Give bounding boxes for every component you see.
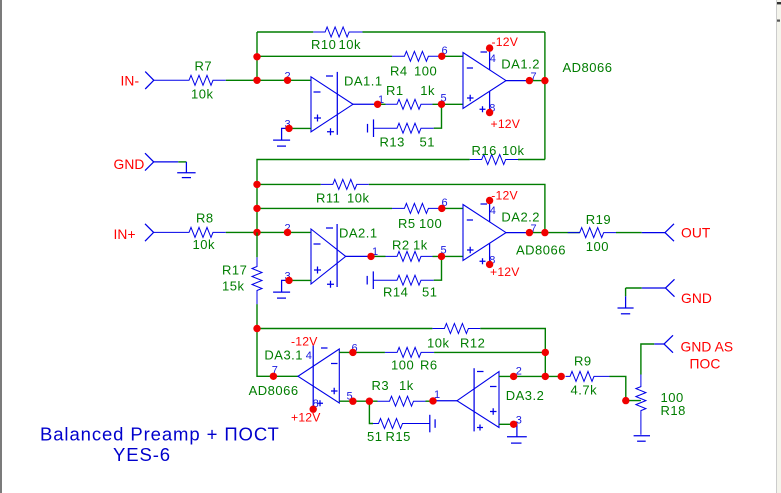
svg-text:51: 51 — [422, 285, 437, 300]
label R9 4.7k — [571, 354, 598, 398]
junction R5 tap on input net — [253, 205, 260, 212]
junction R6 to R12 net — [542, 349, 549, 356]
junction DA3.1 pin 6 — [349, 349, 356, 356]
ground at R18 — [634, 436, 650, 442]
resistor R12 — [432, 324, 480, 334]
svg-text:10k: 10k — [347, 191, 369, 206]
resistor R10 — [313, 27, 362, 37]
svg-text:IN+: IN+ — [114, 227, 136, 242]
wire R8 to input node — [226, 231, 311, 233]
wire R7 to input node — [226, 79, 257, 81]
svg-text:10k: 10k — [193, 237, 215, 252]
svg-text:R7: R7 — [195, 59, 213, 74]
wire output dot to R2 — [371, 255, 386, 257]
svg-text:DA1.2: DA1.2 — [501, 56, 540, 71]
junction DA3.1 pin 7 — [270, 373, 277, 380]
label R14 51 — [383, 285, 437, 300]
resistor R3 — [378, 396, 426, 406]
wire output to OUT row — [529, 232, 579, 234]
junction DA3.2 pin 1 — [429, 397, 436, 404]
label R4 100 — [390, 64, 437, 79]
resistor R13 with ground tap — [368, 119, 434, 137]
svg-text:R15: R15 — [386, 429, 411, 444]
wire R2 to pin5 node — [433, 255, 464, 257]
junction DA2.2 pin 8 power — [486, 261, 493, 268]
wire pin5 node down to R14 — [434, 256, 442, 280]
junction DA1.2 pin 8 power — [486, 109, 493, 116]
junction DA3.1 pin 8 power — [310, 406, 317, 413]
junction DA1.2 pin 5 — [438, 101, 445, 108]
svg-text:10k: 10k — [339, 37, 361, 52]
label R19 100 — [586, 212, 611, 254]
wire DA3.2 pin3 to ground — [499, 424, 517, 436]
node GND input connector — [145, 153, 154, 170]
junction R9 left node — [558, 373, 565, 380]
node OUT connector — [665, 224, 674, 241]
wire DA1.2 output — [506, 80, 529, 82]
wire pin3 DA2.1 to ground — [282, 280, 311, 292]
window left border — [0, 0, 2, 493]
wire R6 to right vertical — [434, 351, 545, 353]
resistor R8 — [154, 227, 226, 237]
svg-text:-12V: -12V — [291, 335, 318, 349]
junction DA2.2 pin 5 — [438, 253, 445, 260]
wire R4 row — [257, 55, 463, 57]
junction DA3.1 pin 5 — [349, 398, 356, 405]
label R17 15k — [222, 262, 247, 293]
junction DA1.2 pin 4 power — [486, 44, 493, 51]
junction pin2 net at right vertical — [542, 373, 549, 380]
junction input node at R7 — [253, 77, 260, 84]
wire DA2.2 output — [506, 232, 529, 234]
resistor R16 — [470, 155, 518, 165]
resistor R19 — [568, 228, 616, 238]
label 100 R6 — [391, 358, 438, 373]
label 51 R15 — [367, 429, 411, 444]
wire stage1 bottom (R16 row) — [257, 160, 545, 233]
svg-text:R12: R12 — [460, 336, 485, 351]
svg-text:4: 4 — [490, 205, 496, 217]
wire output to right vertical — [529, 80, 545, 82]
svg-text:R13: R13 — [380, 135, 405, 150]
wire pin5 branch down to R15 — [369, 401, 373, 423]
resistor R4 — [392, 51, 440, 61]
wire DA3.1 pin6 row — [339, 351, 385, 353]
junction DA1.2 pin 7 — [526, 77, 533, 84]
junction DA2.2 pin 4 power — [486, 197, 493, 204]
svg-text:DA2.2: DA2.2 — [501, 209, 540, 224]
wire DA3.2 pin2 row — [499, 375, 561, 377]
svg-text:51: 51 — [420, 135, 435, 150]
resistor R11 — [321, 179, 369, 189]
label R2 1k — [392, 238, 428, 253]
svg-text:DA3.1: DA3.1 — [264, 347, 303, 362]
node IN- connector — [145, 72, 154, 89]
wire DA3.2 output — [433, 400, 457, 402]
svg-text:R2: R2 — [392, 238, 410, 253]
resistor R14 with ground tap — [367, 271, 434, 289]
junction DA1.2 pin 6 — [438, 53, 445, 60]
ground at DA3.2 pin3 — [507, 437, 527, 443]
svg-text:R14: R14 — [383, 285, 408, 300]
junction input node at R8 — [253, 229, 260, 236]
ground at GND right — [618, 308, 634, 314]
junction DA3.2 pin 2 — [510, 373, 517, 380]
wire R5 row — [257, 207, 463, 209]
wire DA3.1 pin5 row — [339, 400, 377, 402]
wire pin5 node down to R13 — [434, 104, 442, 128]
svg-text:R16: R16 — [472, 143, 497, 158]
svg-text:DA1.1: DA1.1 — [344, 74, 383, 89]
wire R12 row (stage3 top) — [257, 329, 545, 377]
wire GND right to ground — [626, 288, 666, 308]
svg-text:R18: R18 — [661, 403, 686, 418]
op-amp DA1.2 — [463, 48, 506, 112]
wire R1 to pin5 node — [433, 103, 464, 105]
label R16 10k — [472, 143, 525, 158]
junction DA3.2 pin 3 — [510, 421, 517, 428]
wire R9 to R18 node — [610, 376, 641, 400]
wire GND connector to ground — [154, 162, 187, 173]
wire GND AS to R18 — [641, 344, 664, 375]
op-amp DA3.1 (mirrored) — [298, 346, 339, 410]
svg-text:R9: R9 — [574, 354, 592, 369]
window right scrollbar edge — [777, 0, 781, 493]
svg-text:GND: GND — [681, 291, 712, 306]
resistor R6 — [385, 347, 434, 357]
wire R3 to pin1 node — [426, 400, 434, 402]
junction DA2.2 pin 7 — [526, 229, 533, 236]
junction R15 tap — [366, 398, 373, 405]
wire R11 row — [257, 184, 545, 232]
svg-text:100: 100 — [414, 64, 437, 79]
label 10k R12 — [427, 336, 485, 351]
wire R17 column — [256, 232, 258, 328]
svg-text:R6: R6 — [420, 358, 438, 373]
svg-text:R17: R17 — [222, 262, 247, 277]
node GND AS connector — [664, 335, 673, 352]
junction stage1 output net — [541, 77, 548, 84]
svg-text:100: 100 — [586, 239, 609, 254]
svg-text:DA3.2: DA3.2 — [506, 388, 545, 403]
wire DA2.1 output — [346, 255, 371, 257]
node IN+ connector — [145, 224, 154, 241]
svg-text:ПОС: ПОС — [690, 357, 721, 372]
svg-text:R3: R3 — [372, 378, 390, 393]
svg-text:1k: 1k — [399, 378, 414, 393]
op-amp DA2.1 — [311, 224, 346, 288]
junction DA2.1 pin 1 — [367, 253, 374, 260]
resistor R9 — [566, 371, 610, 381]
svg-text:+12V: +12V — [291, 411, 321, 425]
svg-text:R8: R8 — [196, 211, 214, 226]
label R13 51 — [380, 135, 435, 150]
ground at GND input — [177, 173, 195, 178]
label R8 value — [193, 211, 215, 253]
junction R17 to R12 node — [253, 325, 260, 332]
junction DA1.1 pin 2 — [284, 77, 291, 84]
junction DA1.1 pin 1 — [374, 101, 381, 108]
svg-text:YES-6: YES-6 — [113, 444, 171, 465]
svg-text:-12V: -12V — [491, 189, 518, 203]
svg-text:AD8066: AD8066 — [249, 383, 299, 398]
svg-text:IN-: IN- — [121, 73, 140, 88]
op-amp DA1.1 — [311, 72, 353, 135]
svg-text:+12V: +12V — [490, 265, 520, 279]
op-amp DA3.2 (mirrored) — [457, 368, 499, 431]
wire stage1 right vertical — [544, 32, 546, 160]
wire input node to op-amp — [257, 79, 311, 81]
svg-text:AD8066: AD8066 — [563, 60, 613, 75]
resistor R7 — [154, 75, 226, 85]
svg-text:GND AS: GND AS — [681, 340, 734, 355]
label R1 1k — [386, 83, 435, 98]
svg-text:10k: 10k — [427, 336, 449, 351]
svg-text:R1: R1 — [386, 83, 404, 98]
label R10 10k — [311, 37, 361, 52]
svg-text:51: 51 — [367, 429, 382, 444]
svg-text:R11: R11 — [316, 191, 340, 206]
svg-text:1k: 1k — [420, 83, 435, 98]
wire pin3 to ground — [282, 128, 311, 140]
junction DA2.1 pin 3 — [285, 277, 292, 284]
junction OUT net — [541, 229, 548, 236]
wire DA1.1 output — [353, 103, 378, 105]
wire stage1 left vertical — [256, 32, 258, 80]
svg-text:100: 100 — [391, 358, 414, 373]
svg-text:R4: R4 — [390, 64, 408, 79]
op-amp DA2.2 — [463, 201, 506, 265]
resistor R18 — [636, 375, 646, 435]
svg-text:4.7k: 4.7k — [571, 383, 598, 398]
label R3 1k — [372, 378, 414, 393]
svg-text:+12V: +12V — [491, 117, 521, 131]
title text — [40, 423, 280, 465]
resistor R2 — [386, 251, 433, 261]
svg-text:Balanced Preamp + ПОСТ: Balanced Preamp + ПОСТ — [40, 423, 280, 444]
junction R9 to R18 node — [622, 397, 629, 404]
ground at DA1.1 pin3 — [273, 140, 290, 146]
wire stage1 top (feedback) — [257, 31, 545, 33]
ground at DA2.1 pin3 — [273, 292, 290, 298]
junction DA2.2 pin 6 — [438, 205, 445, 212]
label R5 100 — [398, 216, 442, 231]
svg-text:OUT: OUT — [681, 226, 711, 241]
svg-text:10k: 10k — [191, 87, 213, 102]
svg-text:1k: 1k — [413, 238, 428, 253]
resistor R5 — [392, 203, 440, 213]
node GND right connector — [666, 279, 675, 296]
junction DA1.1 pin 3 — [285, 125, 292, 132]
svg-text:-12V: -12V — [492, 35, 519, 49]
junction R4 tap on input net — [253, 53, 260, 60]
svg-text:R5: R5 — [398, 216, 416, 231]
wire output dot to R1 — [378, 103, 386, 105]
wire R19 to OUT connector — [616, 232, 665, 234]
label 100 R18 — [661, 390, 686, 418]
resistor R1 — [386, 99, 433, 109]
junction DA2.1 pin 2 — [284, 229, 291, 236]
svg-text:4: 4 — [490, 53, 496, 65]
svg-text:15k: 15k — [222, 278, 244, 293]
wire stage3 left vertical to DA3.1 output — [257, 329, 298, 377]
svg-text:100: 100 — [419, 216, 442, 231]
resistor R17 — [252, 257, 262, 304]
svg-text:4: 4 — [306, 350, 312, 362]
junction R11 tap on input net — [253, 181, 260, 188]
label GND AS POS — [681, 340, 734, 372]
svg-text:R10: R10 — [311, 37, 336, 52]
svg-text:10k: 10k — [502, 143, 524, 158]
svg-text:AD8066: AD8066 — [516, 242, 566, 257]
resistor R15 with ground tap — [373, 415, 435, 433]
svg-text:R19: R19 — [586, 212, 611, 227]
svg-text:DA2.1: DA2.1 — [339, 226, 378, 241]
label R11 10k — [316, 191, 369, 206]
svg-text:GND: GND — [114, 157, 145, 172]
